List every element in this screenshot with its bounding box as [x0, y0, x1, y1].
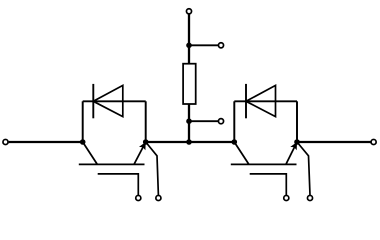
node right collector: [232, 139, 238, 145]
IGBT Q1 emitter diagonal: [134, 142, 146, 164]
node left emitter: [143, 139, 149, 145]
node lower aux junction: [186, 118, 192, 124]
IGBT Q1 emitter arrow: [139, 142, 146, 150]
terminal lower aux: [218, 119, 223, 124]
IGBT Q1 gate lead: [98, 174, 139, 195]
diode D1 top wire: [83, 100, 146, 102]
terminal Q2 emitter sense: [307, 195, 312, 200]
IGBT Q2 emitter sense lead: [297, 142, 310, 195]
IGBT Q2 collector diagonal: [234, 142, 249, 164]
diode D2 cathode riser: [233, 101, 235, 142]
IGBT Q2 emitter diagonal: [286, 142, 297, 164]
wire upper aux stub: [189, 44, 218, 46]
node right emitter: [294, 139, 300, 145]
IGBT Q2 emitter arrow: [290, 142, 297, 150]
node center tap: [186, 139, 192, 145]
wire resistor bottom vertical: [188, 104, 190, 142]
diode D1 anode riser: [145, 101, 147, 142]
IGBT Q1 collector diagonal: [83, 142, 98, 164]
wire left rail: [9, 141, 83, 143]
diode D2 cathode bar: [245, 84, 247, 118]
wire lower aux stub: [189, 120, 218, 122]
IGBT Q2 body bar: [231, 163, 297, 165]
diode D2 top wire: [234, 100, 297, 102]
resistor R1: [183, 64, 196, 104]
terminal Q1 emitter sense: [156, 195, 161, 200]
terminal left (collector 1): [3, 139, 8, 144]
IGBT Q1 emitter sense lead: [146, 142, 159, 195]
terminal Q1 gate: [136, 195, 141, 200]
terminal upper aux: [218, 43, 223, 48]
diode D1 cathode bar: [92, 84, 94, 118]
IGBT Q1 body bar: [79, 163, 145, 165]
terminal right (emitter 2): [371, 139, 376, 144]
terminal Q2 gate: [284, 195, 289, 200]
wire top vertical: [188, 14, 190, 64]
terminal top (collector tap): [186, 9, 191, 14]
diode D2 triangle: [246, 85, 276, 116]
node left collector: [80, 139, 86, 145]
diode D2 anode riser: [296, 101, 298, 142]
IGBT Q2 gate lead: [250, 174, 287, 195]
diode D1 triangle: [93, 85, 123, 116]
wire right rail: [297, 141, 371, 143]
wire center rail: [146, 141, 235, 143]
node upper aux junction: [186, 43, 192, 49]
diode D1 cathode riser: [82, 101, 84, 142]
